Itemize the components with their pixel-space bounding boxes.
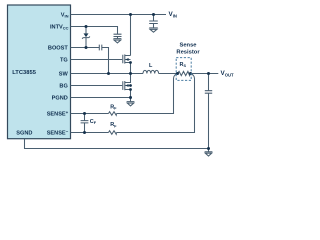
svg-text:TG: TG	[60, 57, 68, 63]
svg-text:Resistor: Resistor	[176, 50, 200, 56]
svg-text:SGND: SGND	[16, 130, 32, 136]
svg-text:LTC3855: LTC3855	[12, 70, 37, 76]
svg-text:BG: BG	[59, 83, 67, 89]
svg-text:RS: RS	[180, 62, 187, 68]
svg-text:VOUT: VOUT	[221, 70, 234, 77]
svg-text:SENSE−: SENSE−	[47, 129, 69, 137]
svg-text:L: L	[149, 63, 153, 69]
svg-text:BOOST: BOOST	[48, 45, 68, 51]
svg-text:PGND: PGND	[52, 95, 68, 101]
svg-text:CF: CF	[90, 119, 97, 125]
svg-text:INTVCC: INTVCC	[50, 24, 69, 30]
svg-text:SENSE+: SENSE+	[47, 110, 69, 118]
svg-text:SW: SW	[59, 71, 69, 77]
svg-text:VIN: VIN	[61, 12, 69, 18]
svg-text:VIN: VIN	[169, 11, 177, 18]
svg-text:RF: RF	[110, 122, 117, 128]
svg-text:Sense: Sense	[179, 43, 197, 49]
svg-text:RF: RF	[110, 105, 117, 111]
